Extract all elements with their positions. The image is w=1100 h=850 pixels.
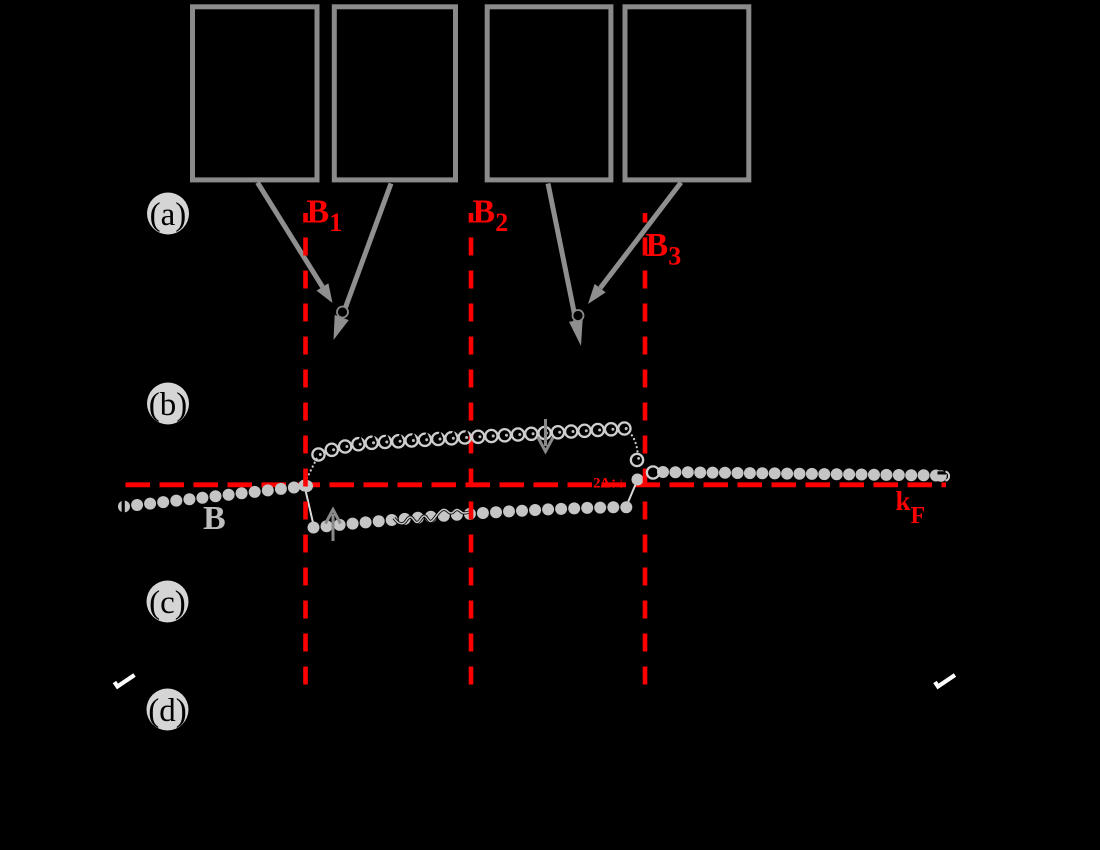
svg-text:B: B xyxy=(203,500,226,537)
svg-text:(d): (d) xyxy=(148,693,186,729)
svg-text:(c): (c) xyxy=(149,585,186,621)
svg-text:(b): (b) xyxy=(149,387,187,423)
svg-text:(a): (a) xyxy=(150,197,187,233)
svg-text:2Δ↑↓: 2Δ↑↓ xyxy=(593,476,625,492)
